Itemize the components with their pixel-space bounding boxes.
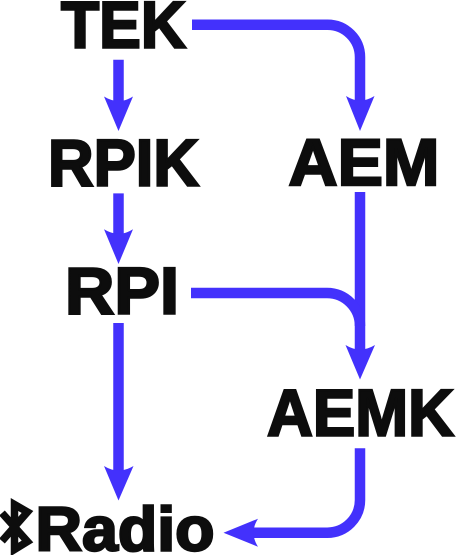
arrowhead to AEMK [346,345,376,380]
svg-text:AEMK: AEMK [267,376,454,450]
arrowhead RPIK to RPI [104,229,133,264]
wire AEM to AEMK [355,192,366,363]
arrowhead TEK to AEM [346,96,375,131]
wire TEK to RPIK [113,60,124,114]
wire RPIK to RPI [113,193,124,247]
arrowhead RPI to Radio [104,466,134,501]
wire RPI to Radio [113,323,124,484]
wire AEMK to Radio [243,448,360,532]
arrowhead AEMK to Radio [224,519,259,547]
wire RPI to AEMK [191,293,360,326]
bluetooth icon [2,505,28,550]
arrowhead TEK to RPIK [104,97,133,132]
svg-text:AEM: AEM [289,125,440,199]
svg-text:RPIK: RPIK [48,126,199,200]
svg-text:Radio: Radio [36,496,215,555]
svg-text:RPI: RPI [65,254,179,328]
wire TEK to AEM [192,25,360,113]
svg-text:TEK: TEK [61,0,186,62]
